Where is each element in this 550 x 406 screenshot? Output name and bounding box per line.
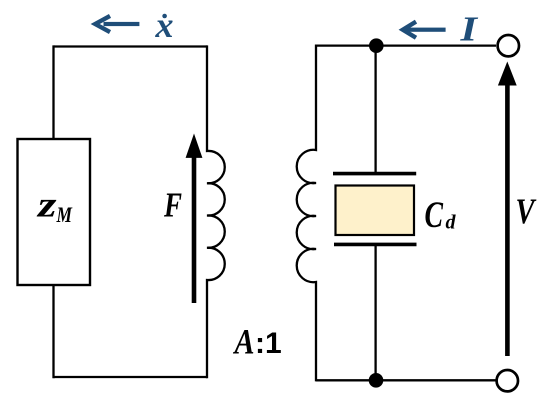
svg-text::1: :1: [255, 327, 282, 360]
svg-text:z: z: [35, 185, 56, 225]
svg-text:I: I: [459, 10, 478, 49]
svg-text:C: C: [425, 195, 444, 236]
svg-text:d: d: [446, 212, 457, 234]
svg-text:M: M: [56, 202, 73, 227]
svg-text:F: F: [163, 185, 182, 224]
svg-text:V: V: [516, 191, 537, 231]
svg-text:A: A: [233, 322, 255, 362]
svg-text:x: x: [155, 5, 174, 45]
